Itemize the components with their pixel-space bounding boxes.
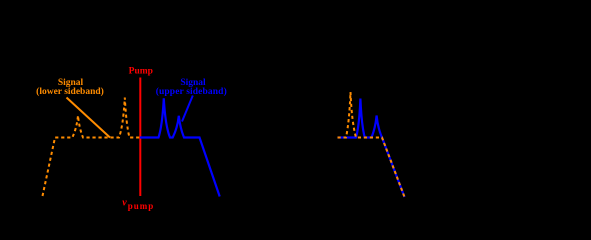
red label nu_pump xyxy=(122,198,154,212)
orange dashed spectrum curve (right diagram) xyxy=(338,92,405,197)
red pump line xyxy=(139,78,141,197)
orange label: Signal (lower sideband) xyxy=(36,78,104,97)
blue solid spectrum curve (right diagram) xyxy=(338,99,405,198)
blue solid spectrum curve (left diagram, upper sideband) xyxy=(140,98,220,196)
svg-text:(upper sideband): (upper sideband) xyxy=(156,86,227,97)
svg-text:(lower sideband): (lower sideband) xyxy=(36,86,104,97)
blue leader line xyxy=(182,96,193,122)
orange leader line xyxy=(67,98,111,138)
orange dashed spectrum curve (left diagram, lower sideband) xyxy=(43,98,141,197)
svg-text:ν: ν xyxy=(122,198,127,209)
blue label Signal (upper sideband) xyxy=(156,78,227,97)
svg-text:pump: pump xyxy=(128,201,155,211)
svg-text:Pump: Pump xyxy=(129,67,153,77)
